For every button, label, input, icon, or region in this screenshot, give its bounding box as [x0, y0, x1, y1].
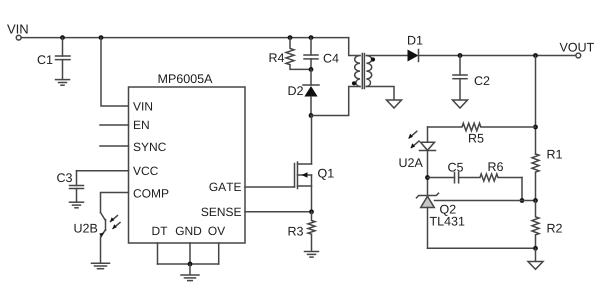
- wire top rail VIN to transformer: [21, 37, 349, 39]
- node junction drain: [309, 113, 314, 118]
- node junction GND: [188, 262, 193, 267]
- ground under R3: [305, 252, 319, 258]
- node junction REF: [520, 198, 525, 203]
- pin label VCC: [133, 167, 158, 176]
- node VIN terminal: [7, 25, 28, 40]
- resistor R4: [270, 38, 311, 70]
- wire U2A branch down: [427, 127, 429, 142]
- pin label OV: [208, 227, 225, 236]
- pin label VIN: [133, 102, 152, 110]
- node junction C4 bottom: [309, 67, 314, 72]
- wire C5 branch: [428, 177, 455, 179]
- wire REF node: [435, 200, 536, 202]
- pin label GND: [176, 227, 201, 236]
- wire COMP to opto: [101, 193, 129, 213]
- resistor R2: [532, 201, 562, 249]
- transformer T1 core: [362, 54, 364, 89]
- wire VOUT branch down: [535, 56, 537, 155]
- pin label SYNC: [134, 143, 166, 152]
- node junction R4 top: [288, 35, 293, 40]
- node junction R1 branch: [533, 53, 538, 58]
- capacitor C2: [453, 56, 489, 100]
- wire DT GND OV pins: [158, 243, 219, 264]
- resistor R6: [459, 162, 522, 181]
- wire EN stub: [100, 124, 129, 126]
- ground under GND pin: [181, 275, 199, 281]
- wire primary bottom return: [311, 87, 360, 116]
- ground under C1: [56, 80, 70, 86]
- node junction C5 branch: [425, 175, 430, 180]
- transformer T1 primary winding: [355, 56, 360, 87]
- node junction C1: [60, 35, 65, 40]
- op-amp U1 MP6005A IC body: [129, 74, 246, 243]
- resistor R3: [289, 212, 315, 252]
- node junction R5 right: [533, 125, 538, 130]
- wire GND down: [189, 264, 191, 275]
- capacitor C4: [304, 38, 339, 70]
- diode D2: [289, 69, 319, 115]
- pin label DT: [152, 227, 167, 235]
- wire secondary top to D1: [366, 55, 407, 57]
- node junction VIN-pin branch: [99, 35, 104, 40]
- capacitor C1: [38, 38, 70, 80]
- ground secondary triangle: [387, 100, 402, 108]
- capacitor C3: [57, 171, 83, 202]
- wire D1 to VOUT: [419, 55, 577, 57]
- node polarity dot primary: [352, 81, 356, 85]
- capacitor C5: [448, 163, 463, 183]
- wire bottom rail: [428, 247, 536, 249]
- diode D1: [408, 36, 423, 62]
- wire ground stub: [535, 248, 537, 261]
- light arrows from U2A: [408, 131, 419, 148]
- transistor U2B optocoupler photo-transistor: [74, 213, 105, 264]
- transformer T1 secondary winding: [366, 56, 371, 87]
- wire rail to VIN pin: [101, 38, 129, 106]
- ground under C3: [70, 202, 84, 208]
- ground right triangle: [528, 262, 543, 270]
- transistor Q1 MOSFET: [295, 116, 334, 212]
- node junction R1 R2: [533, 198, 538, 203]
- node VOUT terminal: [560, 43, 594, 58]
- resistor R5: [428, 123, 536, 142]
- wire GATE to Q1: [245, 186, 295, 188]
- ground under C2 triangle: [453, 100, 468, 108]
- wire VCC to C3: [77, 170, 129, 172]
- ground under U2B: [92, 263, 110, 269]
- node junction C2: [458, 53, 463, 58]
- pin label COMP: [134, 189, 169, 198]
- node polarity dot secondary: [371, 57, 375, 61]
- node junction C4 top: [309, 35, 314, 40]
- wire transformer primary top: [349, 38, 360, 56]
- pin label EN: [134, 121, 149, 129]
- node junction source R3: [309, 209, 314, 214]
- resistor R1: [532, 150, 562, 201]
- transistor Q2 TL431: [417, 193, 465, 248]
- LED U2A optocoupler: [399, 142, 435, 195]
- pin label GATE: [209, 183, 241, 192]
- wire SENSE to source: [245, 211, 312, 213]
- pin label SENSE: [201, 208, 241, 217]
- wire SYNC stub: [100, 145, 129, 147]
- node junction ground R2: [533, 246, 538, 251]
- wire secondary bottom to ground: [366, 87, 394, 100]
- light arrows into U2B: [110, 216, 120, 230]
- wire R6 to REF node: [521, 178, 523, 201]
